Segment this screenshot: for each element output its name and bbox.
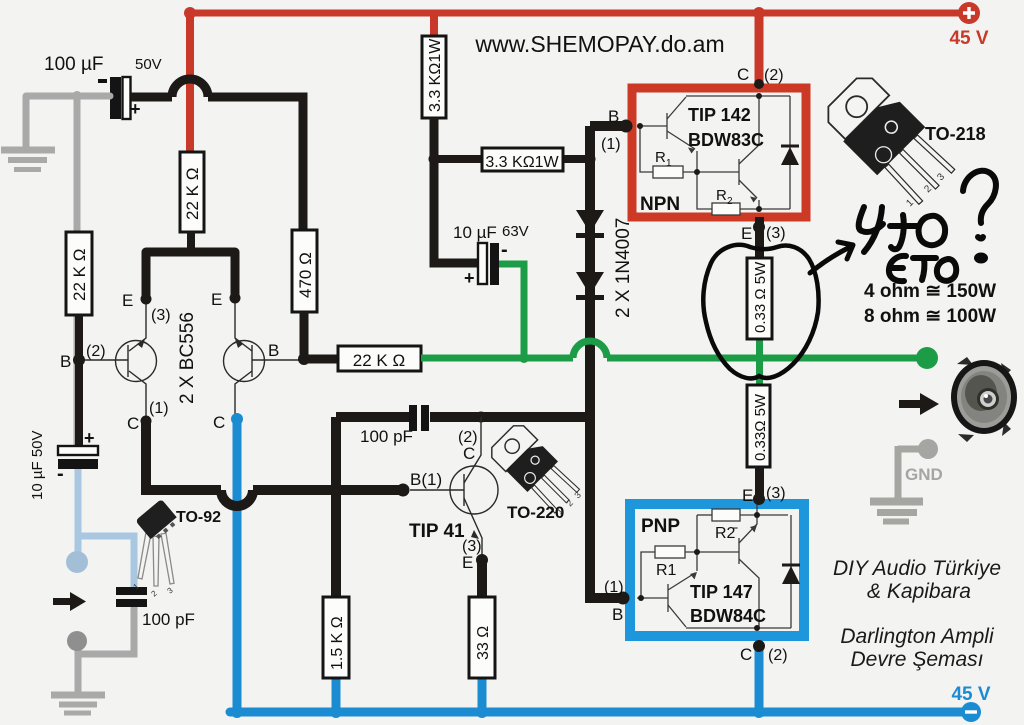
node B(1) of PNP: [617, 592, 630, 605]
svg-text:3.3 KΩ1W: 3.3 KΩ1W: [427, 38, 444, 112]
svg-text:100 pF: 100 pF: [142, 610, 195, 629]
transistor Q2 BC556 (right, mirrored): [224, 298, 301, 419]
ground GND (right, gray): [870, 446, 923, 522]
svg-text:(2): (2): [768, 647, 788, 664]
svg-text:2 X BC556: 2 X BC556: [177, 312, 198, 404]
node C(2) of PNP: [753, 640, 765, 652]
transistor Q3 TIP41: [410, 417, 498, 560]
svg-text:C: C: [127, 414, 139, 433]
annotation handwritten "?": [963, 171, 996, 239]
svg-text:DIY Audio Türkiye: DIY Audio Türkiye: [833, 557, 1001, 580]
annotation hand-drawn blob around 0.33R: [703, 245, 818, 379]
node junction at base of Q2: [298, 353, 310, 365]
op-amp U1 NPN darlington module TIP142/BDW83C: [632, 65, 806, 217]
svg-text:10 µF: 10 µF: [453, 223, 497, 242]
svg-text:R1: R1: [656, 562, 677, 579]
node E(3) of PNP: [753, 493, 765, 505]
svg-text:B: B: [60, 352, 71, 371]
node E of Q1: [141, 294, 152, 305]
op-amp U2 PNP darlington module TIP147/BDW84C: [630, 504, 804, 636]
svg-text:470 Ω: 470 Ω: [296, 252, 315, 298]
svg-text:E: E: [462, 553, 473, 572]
wire blue stub below 33R resistor: [478, 678, 487, 712]
transistor package TO-92 drawing: [138, 532, 174, 586]
wire blue stub below 1.5K resistor: [332, 678, 341, 712]
svg-text:BDW83C: BDW83C: [688, 130, 764, 150]
svg-text:22 K Ω: 22 K Ω: [353, 351, 405, 370]
resistor 33R: [469, 597, 495, 678]
capacitor C 10uF 50V: [29, 428, 98, 500]
node junction dots on 3.3K leads: [429, 154, 440, 165]
NPN module red box: [632, 88, 806, 217]
diode D1 1N4007: [576, 210, 604, 236]
svg-text:www.SHEMOPAY.do.am: www.SHEMOPAY.do.am: [474, 31, 724, 57]
diode internal (NPN): [781, 147, 799, 165]
node +45V supply terminal: [949, 2, 988, 49]
svg-text:(2): (2): [764, 67, 784, 84]
svg-text:C: C: [463, 444, 475, 463]
node E of Q2: [230, 293, 241, 304]
node junction at TIP41 collector: [476, 412, 487, 423]
arrow to speaker: [899, 393, 939, 415]
svg-text:E: E: [742, 486, 753, 505]
svg-text:+: +: [130, 99, 141, 119]
svg-text:C: C: [740, 645, 752, 664]
svg-text:TIP 41: TIP 41: [409, 521, 465, 542]
NPN internal schematic: [637, 96, 790, 209]
svg-text:E: E: [211, 290, 222, 309]
svg-text:10 µF 50V: 10 µF 50V: [29, 430, 46, 500]
node C of Q1: [141, 416, 152, 427]
resistor 3.3 KΩ1W (horizontal): [434, 148, 590, 171]
svg-text:C: C: [737, 65, 749, 84]
node junction dots on bottom rail: [231, 706, 243, 718]
resistor 22K (far left): [66, 232, 92, 315]
svg-text:2 X 1N4007: 2 X 1N4007: [613, 218, 634, 318]
svg-text:B: B: [612, 605, 623, 624]
svg-text:33 Ω: 33 Ω: [475, 626, 492, 660]
svg-text:GND: GND: [905, 465, 943, 484]
resistor 0.33R 5W (lower): [747, 385, 770, 467]
resistor R1 (NPN): [653, 166, 683, 178]
input arrow: [53, 592, 86, 611]
svg-text:45 V: 45 V: [951, 684, 990, 705]
speaker: [951, 357, 1017, 442]
PNP internal schematic: [637, 504, 791, 628]
wire E of PNP: [755, 467, 764, 503]
svg-text:C: C: [213, 413, 225, 432]
node B of first BC556: [73, 354, 85, 366]
svg-text:-: -: [57, 463, 64, 485]
svg-text:2: 2: [727, 196, 733, 207]
wire -45V bottom rail (blue): [230, 708, 962, 717]
resistor 22K (x190): [180, 152, 204, 252]
node C(2) of NPN: [754, 79, 764, 89]
label DIY Audio Türkiye & Kapibara: [833, 557, 1001, 671]
PNP module blue box: [630, 504, 804, 636]
wire red drop to 22K resistor: [186, 13, 194, 152]
svg-text:8 ohm ≅ 100W: 8 ohm ≅ 100W: [864, 306, 996, 327]
svg-text:PNP: PNP: [641, 516, 680, 537]
svg-text:1.5 K Ω: 1.5 K Ω: [329, 616, 346, 670]
wire green hop over black vertical (redrawn on top): [573, 341, 607, 358]
svg-text:E: E: [122, 291, 133, 310]
ground (bottom left): [51, 695, 105, 713]
arrowheads inside PNP: [690, 572, 697, 580]
svg-text:TO-92: TO-92: [176, 509, 221, 526]
node green output dot: [916, 347, 938, 369]
svg-text:-: -: [501, 239, 508, 261]
wire E-bridge connecting both BC556 emitters: [146, 252, 235, 299]
svg-text:100 µF: 100 µF: [44, 54, 104, 75]
resistor 3.3 KΩ1W (vertical): [422, 36, 446, 118]
svg-text:BDW84C: BDW84C: [690, 606, 766, 626]
svg-text:NPN: NPN: [640, 194, 680, 215]
transistor package TO-218 drawing: [818, 68, 961, 211]
svg-text:+: +: [84, 428, 95, 448]
wire from 3.3K down to 10uF cap: [434, 118, 479, 263]
svg-text:TO-218: TO-218: [925, 124, 986, 144]
annotation ink dot: [974, 253, 988, 264]
resistor 22K (horizontal): [338, 346, 421, 371]
svg-text:1: 1: [666, 158, 672, 169]
svg-text:63V: 63V: [502, 223, 529, 240]
wire from 470R node to 22K horizontal resistor: [304, 355, 338, 364]
resistor 1.5K: [323, 597, 349, 678]
capacitor C 100pF (feedback): [360, 405, 429, 446]
capacitor C 10uF 63V: [453, 223, 529, 288]
svg-text:(1): (1): [604, 579, 624, 596]
node gray dot: [67, 631, 87, 651]
resistor R1 (PNP): [655, 546, 685, 558]
svg-text:0.33 Ω 5W: 0.33 Ω 5W: [752, 261, 769, 333]
annotation handwritten "ЭТО": [889, 256, 956, 281]
svg-text:45 V: 45 V: [949, 28, 988, 49]
svg-text:22 K Ω: 22 K Ω: [70, 249, 89, 301]
resistor R2 (PNP): [712, 509, 740, 521]
node -45V supply terminal: [951, 684, 990, 722]
wire from 22K to B node and 10uF cap: [75, 315, 83, 446]
wire blue drop from PNP collector: [755, 645, 764, 712]
node E(3) of TIP41: [476, 554, 488, 566]
transistor Q1 BC556 (left): [85, 299, 157, 421]
wire red drop to NPN collector: [755, 13, 764, 84]
annotation hand-drawn arrow: [810, 247, 850, 273]
node dots internal: [756, 93, 762, 99]
svg-text:(2): (2): [86, 343, 106, 360]
capacitor C 100pF (input): [116, 587, 195, 629]
node B(1) of NPN: [620, 120, 633, 133]
svg-text:Darlington Ampli: Darlington Ampli: [840, 625, 995, 648]
svg-text:(1): (1): [601, 136, 621, 153]
node B(1) of TIP41: [397, 484, 410, 497]
svg-text:3.3 KΩ1W: 3.3 KΩ1W: [485, 154, 559, 171]
wire TIP41 stage: node line y490: [146, 417, 590, 597]
svg-text:(3): (3): [766, 225, 786, 242]
svg-text:(1): (1): [149, 400, 169, 417]
node junction x336: [331, 485, 342, 496]
svg-text:50V: 50V: [135, 56, 162, 73]
wire pale blue from 10uF cap: [78, 469, 134, 587]
node E(3) of NPN: [753, 221, 765, 233]
diode internal (PNP): [782, 566, 800, 584]
svg-text:E: E: [741, 224, 752, 243]
node gray junction dot: [72, 91, 82, 101]
svg-text:B: B: [608, 107, 619, 126]
arrowheads inside NPN: [688, 148, 695, 154]
resistor 470R: [292, 230, 317, 359]
wire blue drop from BC556 collector: [233, 419, 242, 712]
resistor R2 (NPN): [712, 203, 740, 215]
svg-text:(3): (3): [766, 485, 786, 502]
node C of Q2 (blue): [231, 413, 243, 425]
svg-text:TIP 142: TIP 142: [688, 105, 751, 125]
transistor package TO-220 drawing: [487, 421, 584, 518]
wire black from cap to 470R with hop over red: [131, 79, 303, 230]
svg-text:R2̄: R2̄: [715, 525, 738, 542]
svg-text:B(1): B(1): [410, 470, 442, 489]
svg-text:R: R: [716, 187, 727, 204]
svg-text:B: B: [268, 341, 279, 360]
wire E of NPN to 0.33R: [755, 217, 764, 258]
wire main black vertical x590 (NPN B to PNP B): [590, 126, 632, 598]
node pale blue input dot: [66, 551, 88, 573]
annotation handwritten "ЧТО": [859, 207, 945, 252]
svg-text:4 ohm ≅ 150W: 4 ohm ≅ 150W: [864, 281, 996, 302]
wire red stub to 3.3K resistor: [430, 13, 438, 36]
svg-text:+: +: [464, 268, 475, 288]
svg-text:TIP 147: TIP 147: [690, 582, 753, 602]
wire green output rail: [421, 264, 922, 385]
wire gray from 100pF to ground: [78, 607, 134, 692]
svg-text:Devre Şeması: Devre Şeması: [850, 648, 983, 671]
svg-text:R: R: [655, 149, 666, 166]
svg-text:100 pF: 100 pF: [360, 427, 413, 446]
svg-text:& Kapibara: & Kapibara: [867, 580, 971, 603]
diode D2 1N4007: [576, 272, 604, 298]
resistor 0.33R 5W (upper): [747, 258, 772, 339]
wire +45V top rail (red): [190, 10, 960, 17]
wire gray from input ground to cap: [26, 96, 110, 447]
node green junction dot: [519, 353, 529, 363]
capacitor C 100uF 50V (top left): [44, 54, 162, 119]
svg-text:(3): (3): [151, 307, 171, 324]
node junction dot on rail at x759: [753, 7, 765, 19]
ground (top left): [1, 150, 55, 170]
node junction dot on rail at x190: [184, 7, 196, 19]
node dots internal: [754, 512, 760, 518]
svg-text:22 K Ω: 22 K Ω: [183, 168, 202, 220]
svg-text:0.33Ω 5W: 0.33Ω 5W: [752, 393, 769, 461]
svg-text:TO-220: TO-220: [507, 503, 564, 522]
